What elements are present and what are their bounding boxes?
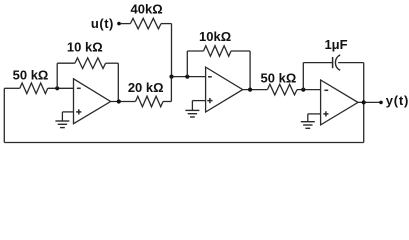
svg-text:10kΩ: 10kΩ: [199, 29, 231, 44]
svg-text:40kΩ: 40kΩ: [131, 2, 163, 17]
svg-text:50 kΩ: 50 kΩ: [13, 67, 49, 82]
svg-text:10 kΩ: 10 kΩ: [67, 40, 103, 55]
svg-text:20 kΩ: 20 kΩ: [128, 80, 164, 95]
svg-text:50 kΩ: 50 kΩ: [261, 70, 297, 85]
svg-text:1μF: 1μF: [324, 37, 347, 52]
svg-text:u(t): u(t): [91, 16, 114, 31]
svg-text:y(t): y(t): [386, 93, 409, 108]
